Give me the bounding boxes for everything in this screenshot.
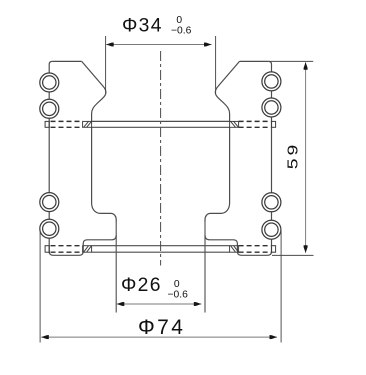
bolt boss circles right column [262, 72, 281, 239]
svg-text:−0.6: −0.6 [168, 289, 189, 300]
neck right edge + phi26 extension [204, 223, 206, 313]
bottom flange upper line [92, 245, 230, 247]
top right corner [268, 61, 271, 64]
section hatch box bottom right [230, 246, 239, 253]
top right ear top edge [240, 60, 269, 62]
right lower ledge and lobe step [205, 235, 272, 255]
flange stub top right [272, 121, 276, 127]
top strip hidden dashed right [239, 120, 271, 122]
neck left edge + phi26 extension [115, 223, 117, 313]
center line [160, 51, 162, 266]
dim phi74 extension line left [39, 229, 41, 343]
hole boss L1 [40, 73, 59, 92]
svg-text:0: 0 [174, 279, 180, 290]
svg-text:Φ74: Φ74 [138, 316, 185, 339]
arrow 59 top [304, 62, 308, 70]
arrow phi74 left [41, 335, 49, 339]
hole boss L3 [40, 193, 59, 212]
svg-text:Φ26: Φ26 [121, 275, 162, 296]
dim 59 extension line bottom [272, 254, 314, 256]
arrow phi74 right [270, 335, 278, 339]
arrow phi26 left [117, 302, 125, 306]
bottom strip hidden dashed left [51, 245, 83, 247]
middle body left edge [92, 127, 117, 222]
bottom strip hidden dashed right [239, 245, 271, 247]
hole boss R1 [262, 72, 281, 91]
svg-text:Φ34: Φ34 [122, 15, 163, 36]
dim phi74 extension line right [280, 231, 282, 343]
left plate edge [48, 65, 50, 254]
arrow phi34 left [106, 42, 114, 46]
top flange upper line [92, 120, 230, 122]
hole boss R4 [262, 220, 281, 239]
flange stub bottom left [45, 246, 49, 253]
svg-text:−0.6: −0.6 [171, 26, 192, 37]
hole boss R2 [262, 98, 281, 117]
dim 59 line [305, 62, 307, 253]
left lower ledge and lobe step [49, 235, 116, 255]
dim phi34 extension line right [215, 36, 217, 93]
section hatch box top left [83, 121, 92, 127]
top flange lower line [92, 126, 230, 128]
arrow phi26 right [194, 302, 202, 306]
top left corner [49, 61, 52, 64]
arrow phi34 right [204, 42, 212, 46]
flange stub top left [45, 121, 49, 127]
dim phi26 line [117, 303, 202, 305]
hole boss L4 [40, 219, 59, 238]
bolt boss circles left column [40, 73, 59, 238]
flange stub bottom right [272, 246, 276, 253]
top left diagonal and S-curve bulge [82, 61, 106, 121]
bottom flange lower line [92, 251, 230, 253]
dim phi34 line [106, 44, 211, 46]
hole boss L2 [40, 99, 59, 118]
top strip hidden dashed left [51, 120, 83, 122]
dim 59 extension line top [269, 60, 313, 62]
right plate edge [271, 65, 273, 254]
top right diagonal and S-curve bulge [215, 61, 239, 121]
svg-text:59: 59 [284, 142, 301, 169]
section hatch box top right [230, 121, 239, 127]
svg-text:0: 0 [176, 15, 182, 26]
dim phi74 line [41, 336, 277, 338]
arrow 59 bottom [304, 245, 308, 253]
dim phi34 extension line left [105, 36, 107, 93]
middle body right edge [205, 127, 230, 222]
section hatch box bottom left [83, 246, 92, 253]
part outline: top left ear top edge [52, 60, 81, 62]
hole boss R3 [262, 193, 281, 212]
